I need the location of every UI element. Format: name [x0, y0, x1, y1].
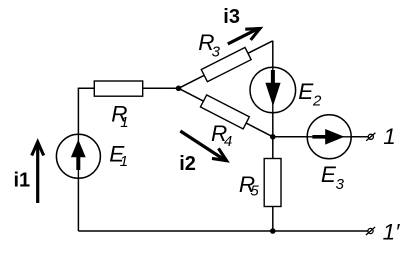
- resistor R3: [201, 47, 251, 81]
- wire right vertical (apex to node B): [272, 41, 274, 137]
- svg-text:3: 3: [212, 44, 221, 61]
- terminal 1': [366, 227, 375, 235]
- current arrow i3: [228, 23, 263, 44]
- source E3: [307, 115, 351, 159]
- node B junction dot: [270, 134, 276, 140]
- svg-text:1: 1: [383, 124, 396, 149]
- current arrow i1: [32, 142, 44, 203]
- svg-text:1: 1: [120, 153, 128, 170]
- svg-text:i2: i2: [179, 153, 196, 175]
- node C junction dot (bottom): [270, 228, 276, 234]
- svg-text:E: E: [298, 79, 314, 104]
- source E2: [250, 67, 296, 113]
- resistor R4: [200, 95, 249, 129]
- svg-text:4: 4: [224, 133, 232, 150]
- resistor R1: [94, 81, 142, 96]
- node A junction dot: [176, 86, 182, 92]
- svg-text:2: 2: [312, 93, 322, 110]
- svg-text:E: E: [321, 162, 337, 187]
- wire bottom horizontal to terminal 1': [78, 230, 368, 232]
- svg-text:5: 5: [250, 182, 259, 199]
- wire left vertical: [77, 88, 79, 231]
- svg-text:i3: i3: [223, 6, 240, 28]
- wire middle horizontal to terminal 1: [273, 136, 369, 138]
- current arrow i2: [180, 131, 230, 166]
- svg-text:i1: i1: [14, 169, 31, 191]
- terminal 1: [366, 133, 375, 141]
- wire diagonal upper (node A to apex): [179, 41, 273, 89]
- wire diagonal lower (node A to node B): [179, 88, 273, 137]
- wire top horizontal: [78, 87, 179, 89]
- svg-text:3: 3: [336, 176, 345, 193]
- wire vertical through R5 (node B to bottom): [272, 137, 274, 231]
- source E1: [56, 134, 100, 178]
- svg-text:1′: 1′: [383, 220, 401, 245]
- svg-text:1: 1: [120, 114, 128, 131]
- resistor R5: [264, 159, 281, 207]
